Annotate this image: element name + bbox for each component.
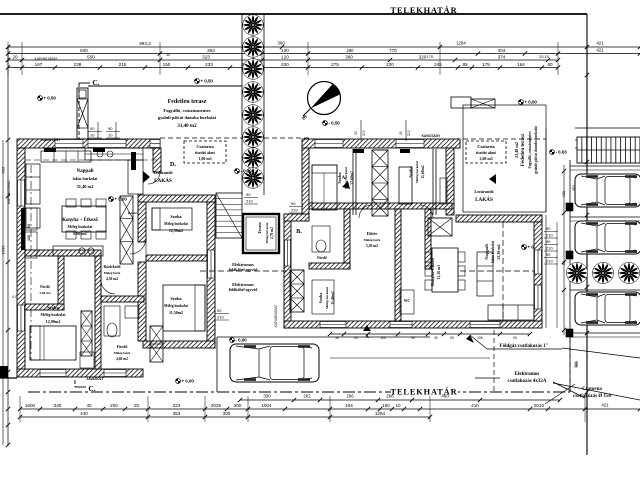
svg-text:770: 770 [389,48,397,53]
svg-text:1600: 1600 [25,403,36,408]
svg-text:90: 90 [354,336,358,340]
svg-text:150: 150 [163,62,171,67]
svg-text:Szoba: Szoba [318,292,323,304]
svg-text:Szoba: Szoba [170,214,182,219]
right dwelling left wall lower window [285,240,291,266]
svg-text:KAPUBEJÁRAT: KAPUBEJÁRAT [35,57,58,61]
svg-text:90: 90 [546,226,551,231]
right dwelling dashed axis v [502,222,504,321]
car carport [230,344,319,382]
svg-text:20: 20 [134,403,140,408]
parking divider 1 [570,166,640,170]
label TELEKHATAR bottom [391,386,458,397]
label szoba sw [41,305,67,324]
svg-text:KAPUBEJÁRAT: KAPUBEJÁRAT [7,180,11,204]
svg-text:245: 245 [434,62,442,67]
svg-text:LAKÁS: LAKÁS [154,176,172,184]
svg-text:210: 210 [217,315,224,320]
svg-text:Csatorna: Csatorna [196,144,214,149]
left ext top wall [138,195,215,202]
svg-text:Mélég burkolat: Mélég burkolat [41,313,67,317]
right xstrip entry [290,270,304,312]
right dwelling dashed axis h2 [200,270,290,272]
svg-text:30: 30 [354,131,358,135]
svg-text:11,40m2: 11,40m2 [331,291,335,304]
svg-text:Fürdő: Fürdő [317,256,327,260]
label szoba ext lower [164,296,188,315]
label szoba r1 [337,166,354,189]
svg-text:20: 20 [12,54,18,59]
svg-text:Szoba: Szoba [170,296,182,301]
left dwelling xstrip szoba [81,311,92,356]
right dwelling left wall lower [284,214,291,328]
right dwelling right wall south [534,222,542,321]
section line C top [79,78,100,140]
car parking 1 [575,174,640,207]
left ext right wall [207,202,215,348]
svg-text:323: 323 [202,54,210,59]
svg-text:330: 330 [263,394,271,399]
bottom dim guides [20,396,585,422]
right dwelling bottom wall [284,321,542,328]
svg-text:60: 60 [27,224,31,228]
svg-text:5,30 m2: 5,30 m2 [366,244,378,248]
svg-text:220: 220 [386,62,394,67]
svg-text:353: 353 [207,48,215,53]
svg-text:300: 300 [277,41,285,46]
svg-text:A.: A. [342,176,348,181]
svg-text:D.: D. [170,161,177,168]
svg-text:Mélég burkolat: Mélég burkolat [325,286,329,309]
marker +0,50 mid [195,79,214,84]
svg-text:90: 90 [411,336,415,340]
label szoba r3 [318,286,335,309]
porch column left [77,88,88,139]
svg-text:11,50m2: 11,50m2 [169,310,183,315]
svg-text:csatlakozás Ø 150: csatlakozás Ø 150 [573,394,612,399]
section arrow A3 [363,325,371,340]
label TELEKHATAR top [391,5,458,15]
utility diagonal 1 [562,348,640,358]
marker +0,50 left [38,96,57,101]
svg-text:353: 353 [572,185,576,191]
svg-text:tisztító aknó: tisztító aknó [476,151,496,155]
csatorna box left [184,141,226,163]
label elektromos foldkabel 2 [229,282,259,292]
svg-text:160: 160 [382,403,390,408]
svg-text:Csatorna: Csatorna [477,144,495,149]
right dwelling dashed axis h [460,270,534,272]
utility diagonal 2 [553,383,640,400]
svg-text:90: 90 [450,336,454,340]
svg-text:Mélég burkolat: Mélég burkolat [164,304,188,308]
svg-text:323: 323 [173,403,181,408]
svg-text:TELEKHATÁR: TELEKHATÁR [391,5,458,15]
right dwelling top wall windows [315,140,424,148]
svg-text:11,60m2: 11,60m2 [421,165,425,178]
dim stack left ext [215,308,229,320]
right porch columns [451,97,495,108]
left dwelling xstrip bath [150,326,163,362]
right dwelling right wall window [535,250,542,309]
svg-text:90: 90 [291,201,296,206]
svg-text:+ 0,50: + 0,50 [44,96,57,101]
entrance arrow right [474,174,496,203]
left dwelling furniture rooms [30,208,205,368]
svg-text:Nappali: Nappali [484,243,489,259]
entrance arrow left [143,170,173,184]
svg-text:421: 421 [596,41,604,46]
svg-text:90: 90 [90,126,95,131]
label 300 vert [575,361,579,367]
svg-text:- 0,00: - 0,00 [236,338,248,343]
svg-text:215: 215 [119,62,127,67]
svg-text:31,40 m2: 31,40 m2 [77,184,94,189]
svg-text:Terasz: Terasz [257,222,262,234]
svg-text:105: 105 [477,336,483,340]
dim stack rightmid [289,201,303,213]
svg-text:gyalult pálcát danuba burkolat: gyalult pálcát danuba burkolat [534,125,538,173]
marker +0,00 court [235,169,253,174]
svg-text:1,00 m3: 1,00 m3 [198,156,211,161]
parking hedge ladder [575,128,640,163]
svg-text:210: 210 [546,233,553,238]
svg-text:Mélég burk: Mélég burk [104,271,121,275]
svg-text:340: 340 [54,403,62,408]
section line C bottom [75,380,96,393]
label wc r [404,299,411,303]
svg-text:460: 460 [441,394,449,399]
svg-text:Mélég burkolat: Mélég burkolat [68,225,94,229]
svg-text:Kamra: Kamra [128,211,139,215]
svg-text:20,15: 20,15 [539,55,549,59]
svg-text:330: 330 [281,62,289,67]
svg-text:300: 300 [223,411,231,416]
svg-text:266: 266 [346,394,354,399]
label bejarat [86,377,104,381]
left dwelling top wall windows [55,140,160,148]
dim row B bottom [18,403,640,412]
dim guide verticals [8,42,587,75]
svg-text:90: 90 [246,192,251,197]
svg-text:353: 353 [173,411,181,416]
dim row B top [6,48,640,56]
marker -0,63 terrace [550,150,568,155]
svg-text:266: 266 [386,394,394,399]
svg-text:Mélég burk: Mélég burk [364,238,381,242]
svg-text:1284: 1284 [375,411,386,416]
svg-text:30: 30 [335,336,339,340]
svg-text:Lezárandó: Lezárandó [153,170,172,175]
property boundary line right [586,14,588,455]
right xstrip columns b [372,150,388,216]
label nappali [73,169,98,189]
svg-text:410: 410 [471,403,479,408]
right dim 602 [579,73,589,455]
svg-text:Földgáz csatlakozás 1": Földgáz csatlakozás 1" [500,344,549,349]
right interior wall v2 [395,209,401,321]
svg-text:210: 210 [246,199,253,204]
label konyha r [430,258,441,286]
right dwelling east wing top wall [456,215,542,222]
svg-text:233: 233 [205,62,213,67]
left wall labels 60 120 [27,224,31,241]
label kamra [128,211,139,215]
left dwelling top wall [17,139,160,148]
svg-text:WC: WC [404,299,411,303]
left dwelling doors [101,172,160,294]
carport lines [217,337,490,392]
interior wall bath left v [58,256,64,310]
parking access line [569,160,571,392]
svg-text:KAVICSÁGY: KAVICSÁGY [42,137,62,142]
svg-text:földkábel egyvéd: földkábel egyvéd [229,287,259,292]
dim row C bottom [18,411,432,419]
vertical dashed court right [494,330,570,392]
right bedroom wall b [433,149,436,215]
label fedetlen terasz left [158,99,217,129]
svg-text:1284: 1284 [456,41,466,46]
dim stack right wall [544,226,558,264]
label konyha [62,217,98,236]
svg-text:290: 290 [347,48,355,53]
svg-text:175: 175 [482,62,490,67]
top wall dims right [354,120,411,141]
dim row A top [6,41,640,50]
label furdo r [317,256,327,260]
svg-text:300: 300 [234,403,242,408]
marker +0,50 right court [323,121,341,126]
label eloter [364,231,381,248]
svg-text:30: 30 [166,53,170,57]
svg-text:200: 200 [110,403,118,408]
right radiators [353,149,410,153]
svg-text:40: 40 [86,403,92,408]
left ext bottom wall [143,341,215,348]
svg-text:90: 90 [546,252,551,257]
svg-text:30: 30 [399,131,403,135]
terrace outline left [88,85,242,87]
svg-text:Lezárandó: Lezárandó [474,189,493,194]
marker -0,00 carport [230,338,248,343]
svg-text:Közlekedő: Közlekedő [103,265,120,269]
left dwelling axis dashdot [30,165,32,360]
svg-text:Nappali: Nappali [77,169,95,174]
car parking 3 [575,292,640,325]
svg-text:KAPUBEJÁRAT: KAPUBEJÁRAT [274,305,278,328]
label B section [296,229,302,235]
svg-text:Fürdő: Fürdő [117,344,128,349]
dim row D top [6,62,560,70]
right interior wall v1 [344,209,350,269]
north arrow [300,82,340,122]
label kavicsagy left [42,137,62,142]
svg-text:170: 170 [427,54,434,59]
svg-text:23,40 m2: 23,40 m2 [514,142,519,158]
left dwelling bottom wall windows [40,370,126,377]
dim row A bottom [238,394,562,403]
svg-text:23,30 m2: 23,30 m2 [496,244,501,259]
interior wall kitchen/rooms [25,250,101,256]
svg-text:421: 421 [596,48,604,53]
label terasz text [265,222,274,244]
svg-text:Szoba: Szoba [408,166,413,178]
left dwelling furniture living [25,148,143,258]
interior wall bath [101,296,144,302]
svg-text:210: 210 [546,246,553,251]
svg-text:- 0,50: - 0,50 [329,121,341,126]
svg-text:210: 210 [362,130,366,136]
label szoba r2 [408,160,425,183]
svg-text:JAVASOLT: JAVASOLT [86,377,104,381]
svg-text:12,90m2: 12,90m2 [45,319,60,324]
svg-text:csatlakozás 4x32A: csatlakozás 4x32A [507,379,546,384]
label foldgaz [466,335,562,349]
marker +0,00 nappali [109,197,128,202]
svg-text:31,40 m2: 31,40 m2 [177,124,197,129]
parking trees [566,262,639,283]
svg-text:404: 404 [345,403,353,408]
svg-text:LAKÁS: LAKÁS [475,195,493,203]
svg-text:+ 0,00: + 0,00 [182,379,195,384]
svg-text:- 0,00: - 0,00 [241,169,253,174]
right terrace outline [463,105,546,212]
left dwelling entry wall right [153,148,161,172]
right interior wall h2 [309,263,350,269]
svg-text:440: 440 [80,411,88,416]
svg-text:105: 105 [380,336,386,340]
right dwelling connect wall [284,214,309,221]
svg-text:8,90 m2: 8,90 m2 [73,231,86,236]
left ext left wall upper [138,202,146,242]
svg-text:30: 30 [434,336,438,340]
interior wall bath left h [25,304,64,310]
svg-text:Előtér: Előtér [367,231,378,236]
label kapubejarat left [7,180,11,204]
svg-text:3,60 m3: 3,60 m3 [479,156,492,161]
left boundary dimension line [1,45,20,447]
right terrace inner line [545,128,547,212]
svg-text:11,30 m3: 11,30 m3 [437,265,441,279]
svg-text:90: 90 [217,308,222,313]
svg-text:374: 374 [498,54,506,59]
svg-text:Fürdő: Fürdő [40,285,50,289]
svg-text:lakás burkolat: lakás burkolat [491,240,495,263]
stairs court [216,193,242,238]
label csatorna csatl [545,384,612,404]
parking dim line [562,165,566,335]
left ext right wall window [208,250,215,278]
right dwelling bottom wall windows [320,322,500,328]
svg-text:90: 90 [108,126,113,131]
svg-text:12,60m2: 12,60m2 [350,171,354,185]
svg-text:300: 300 [575,361,579,367]
svg-text:2010: 2010 [534,403,545,408]
parking divider 3 [570,289,640,291]
svg-text:lakás burkolat: lakás burkolat [73,176,98,181]
label furdo [114,344,131,361]
svg-text:+ 0,50: + 0,50 [201,79,214,84]
svg-text:10: 10 [395,403,401,408]
left dwelling bottom wall [17,369,143,377]
parking dim 353 [562,185,578,368]
left dwelling xstrip corridor [120,196,133,264]
svg-text:262: 262 [303,394,311,399]
svg-text:4,60 m2: 4,60 m2 [116,357,128,361]
marker +0,00 right living [522,245,541,250]
svg-text:210: 210 [291,208,298,213]
svg-text:421: 421 [601,403,609,408]
left ext left wall lower [138,262,146,341]
left wall black strip [21,208,25,250]
right dwelling left wall upper [302,148,309,221]
svg-text:10: 10 [90,133,95,138]
svg-text:1004: 1004 [261,403,272,408]
marker +0,00 porch right [519,100,538,105]
car parking 2 [575,221,640,254]
svg-text:3,80 m2: 3,80 m2 [39,291,51,295]
svg-text:85: 85 [462,62,468,67]
left dwelling left wall window [18,180,25,331]
dim under right dwelling [328,332,532,340]
walkway lines [546,215,557,328]
section arrow A1 [342,176,350,189]
label D section [170,161,177,168]
svg-text:2,70 m2: 2,70 m2 [270,227,274,239]
svg-text:gyalult pálcát danuba burkolat: gyalult pálcát danuba burkolat [158,115,217,120]
right dwelling furniture [312,165,534,320]
right dwelling right wall north [446,148,454,215]
svg-text:- 0,63: - 0,63 [556,150,568,155]
svg-text:12,50m2: 12,50m2 [169,228,183,233]
svg-text:320: 320 [419,54,427,59]
dim stack court [244,192,258,204]
label wc left [39,285,51,295]
svg-text:210: 210 [546,259,553,264]
dim stack porch [88,126,120,138]
right interior wall v3 [425,209,431,269]
terasz box [243,214,279,253]
label elektromos [475,372,585,398]
svg-text:120: 120 [27,235,31,241]
svg-text:Elektromos: Elektromos [515,372,540,377]
svg-text:404: 404 [498,48,506,53]
label nappali r [484,240,501,263]
svg-text:Mélég burkolat: Mélég burkolat [164,222,188,226]
top wall dims left [98,53,170,139]
gate post bottom left [0,366,17,378]
dim row C top [6,54,560,62]
svg-text:60: 60 [547,62,553,67]
svg-text:10: 10 [108,133,113,138]
label kozlekedo [103,265,120,281]
svg-text:Mélég burk: Mélég burk [114,351,131,355]
svg-text:A: A [365,335,369,340]
svg-text:Fedetlen terasz: Fedetlen terasz [168,99,207,105]
label kapubejarat top [35,57,58,61]
svg-text:210: 210 [407,130,411,136]
interior wall vertical [95,256,101,369]
svg-text:120: 120 [281,48,289,53]
svg-text:KAVICSÁGY: KAVICSÁGY [422,133,442,138]
right dwelling top wall [302,139,460,148]
marker +0,00 left bottom [176,379,195,384]
svg-text:Mélég burkolat: Mélég burkolat [265,222,269,244]
svg-text:90: 90 [546,239,551,244]
svg-text:+ 0,00: + 0,00 [525,100,538,105]
left dwelling left wall [17,148,25,377]
tree hedge column [242,14,264,195]
